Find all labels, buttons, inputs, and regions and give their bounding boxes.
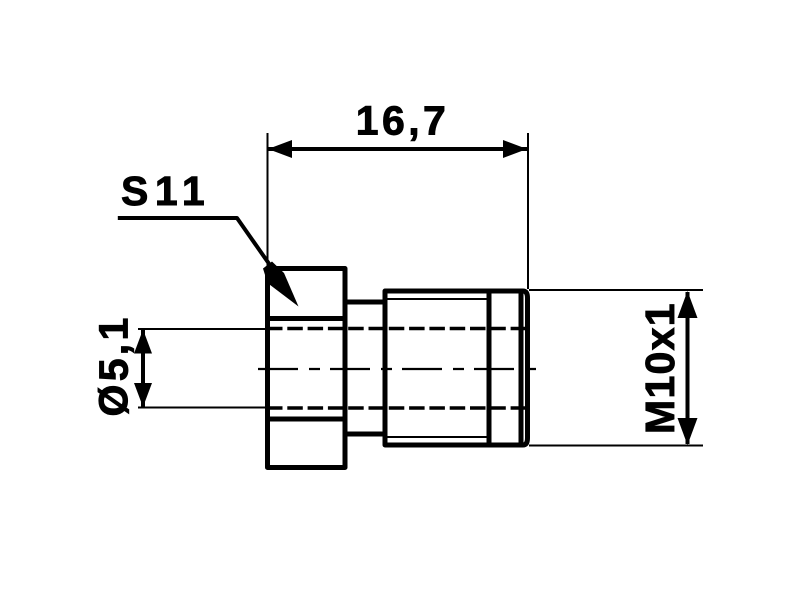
thread root line bottom bbox=[385, 436, 489, 438]
chamfer line bbox=[519, 291, 524, 445]
svg-text:Ø5,1: Ø5,1 bbox=[91, 314, 137, 416]
dimension line diameter bbox=[141, 330, 145, 407]
centerline bbox=[258, 368, 537, 370]
arrowhead thread up bbox=[678, 291, 698, 318]
svg-text:M10x1: M10x1 bbox=[637, 302, 683, 434]
dimension text M10x1 bbox=[637, 302, 683, 434]
arrowhead 16,7 left bbox=[268, 140, 292, 158]
thread body outline bbox=[385, 291, 528, 445]
hidden hole dashed line bottom bbox=[267, 406, 527, 410]
arrowhead thread down bbox=[678, 418, 698, 445]
extension line thread bottom bbox=[529, 445, 703, 447]
thread root line top bbox=[385, 298, 489, 300]
thread runout line bbox=[487, 291, 492, 445]
neck top line bbox=[345, 300, 385, 305]
arrowhead 16,7 right bbox=[503, 140, 527, 158]
hex facet line top bbox=[268, 316, 346, 321]
hex facet line bottom bbox=[268, 417, 346, 422]
leader arrowhead S11 bbox=[263, 262, 299, 307]
extension line diameter top bbox=[138, 328, 266, 330]
hidden hole dashed line top bbox=[267, 327, 527, 331]
svg-text:S11: S11 bbox=[121, 168, 211, 214]
arrowhead diameter up bbox=[134, 330, 152, 354]
hex head outline bbox=[268, 269, 346, 468]
neck bottom line bbox=[345, 432, 385, 437]
label S11 bbox=[121, 168, 211, 214]
svg-text:16,7: 16,7 bbox=[356, 98, 449, 144]
dimension line thread bbox=[686, 292, 690, 444]
extension line diameter bottom bbox=[138, 407, 266, 409]
leader line S11 bbox=[118, 218, 272, 268]
dimension text 16,7 bbox=[356, 98, 449, 144]
extension line 16,7 left bbox=[267, 133, 269, 266]
dimension text diameter 5,1 bbox=[91, 314, 137, 416]
arrowhead diameter down bbox=[134, 383, 152, 407]
extension line 16,7 right bbox=[527, 133, 529, 289]
dimension line 16,7 bbox=[268, 147, 527, 151]
extension line thread top bbox=[529, 289, 703, 291]
